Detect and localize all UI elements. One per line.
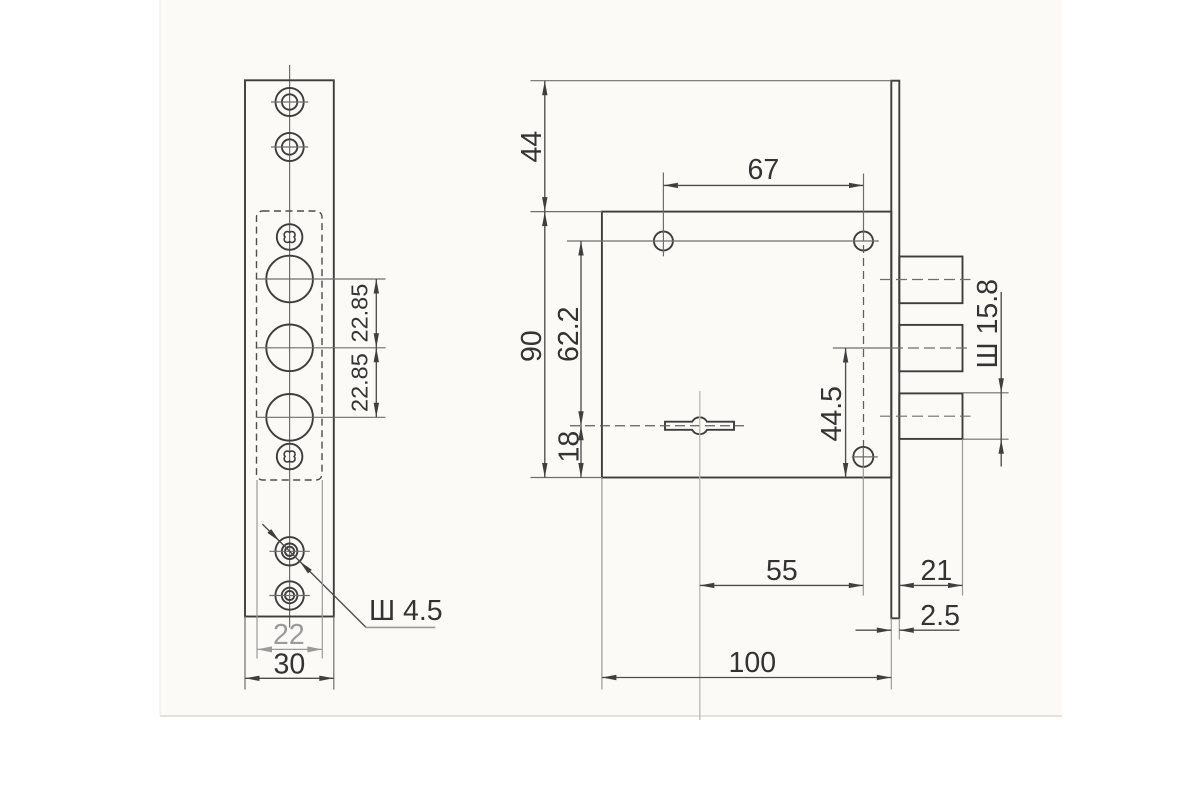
screw S2 clover — [284, 451, 295, 462]
dim 2.5 arrows — [877, 628, 892, 633]
svg-text:2.5: 2.5 — [920, 600, 960, 632]
top extension line (faceplate top) — [531, 80, 892, 82]
dim Ш15.8 extension lines — [963, 392, 1009, 394]
hole H1 outer — [276, 88, 304, 116]
svg-text:44: 44 — [516, 131, 548, 163]
dimension 22.85 upper: line — [375, 279, 377, 348]
svg-text:22.85: 22.85 — [347, 284, 373, 343]
screw hole P2 (bottom) — [275, 581, 303, 609]
svg-text:100: 100 — [729, 647, 777, 679]
faceplate side (tall strip) — [891, 81, 899, 619]
dim 21 line — [899, 584, 962, 586]
big circle B2 — [266, 325, 313, 372]
dim 44.5 extension line — [833, 347, 892, 349]
bolt edge extension (for 21) — [962, 439, 964, 595]
body bottom extension to left — [531, 477, 602, 479]
dim 44 arrows — [542, 81, 547, 96]
dim 67 arrows — [663, 183, 678, 188]
bolt 2 centerline — [892, 347, 971, 349]
keyhole — [665, 417, 734, 434]
svg-text:21: 21 — [921, 555, 953, 587]
dashed axis to bottom hole — [863, 245, 865, 448]
bolt 1 — [899, 257, 962, 304]
dim 22 extension lines (gray) — [256, 480, 258, 659]
keyhole dashed axis horizontal — [570, 425, 744, 427]
dim 22 arrows (gray) — [257, 646, 272, 652]
svg-text:Ш 15.8: Ш 15.8 — [972, 279, 1004, 369]
hole H1 crosshair — [271, 101, 308, 103]
dim 30 arrows — [245, 676, 260, 681]
dim 55 line — [700, 584, 864, 586]
bottom hole — [853, 447, 873, 467]
svg-text:44.5: 44.5 — [816, 386, 848, 441]
bolt 3 centerline — [880, 415, 971, 417]
hole H2 outer — [276, 133, 304, 161]
svg-text:22.85: 22.85 — [347, 353, 373, 412]
svg-text:55: 55 — [766, 555, 798, 587]
dim 90 line — [544, 212, 546, 478]
svg-text:18: 18 — [554, 431, 586, 463]
screw hole right — [854, 232, 873, 251]
svg-text:30: 30 — [274, 649, 306, 681]
dimension 22.85 lower: line — [375, 348, 377, 418]
right hole vertical axis — [863, 174, 865, 242]
dim 62.2 arrows — [578, 241, 583, 256]
screw S1 circle — [277, 224, 303, 250]
bottom hole crosshair — [852, 456, 878, 458]
bolt 2 — [899, 325, 962, 371]
dim Ш15.8 arrows — [999, 378, 1004, 393]
screw S1 clover — [284, 232, 295, 243]
dim 90 arrows — [542, 212, 547, 227]
big circle B1 — [266, 256, 313, 303]
dim 62.2 line — [580, 241, 582, 426]
screw hole P1 (bottom) — [275, 537, 303, 565]
left hole vertical axis — [662, 173, 664, 257]
keyhole vertical centerline — [699, 391, 701, 720]
body top extension to left — [531, 211, 602, 213]
screw S2 circle — [277, 444, 303, 470]
dim 100 arrows — [602, 675, 617, 680]
bolt 3 — [899, 393, 962, 439]
dim 21 arrows — [899, 583, 914, 588]
svg-text:62.2: 62.2 — [553, 307, 585, 362]
P1 crosshair — [269, 550, 309, 552]
hole H1 inner — [282, 94, 297, 109]
dim 2.5 leader lines — [856, 629, 892, 631]
dim 55 arrows — [700, 583, 715, 588]
dim 67 line — [663, 184, 863, 186]
body left edge extension down — [601, 478, 603, 690]
dim 100 line — [602, 677, 891, 679]
svg-text:22: 22 — [273, 619, 305, 651]
B2 center line — [257, 347, 386, 349]
P2 crosshair — [269, 595, 309, 597]
dim 22 line (gray) — [257, 648, 322, 650]
B1 center line — [257, 278, 386, 280]
dim 44 line — [544, 81, 546, 212]
bottom hole axis extension down — [862, 467, 864, 596]
leader arrows on hole P1 — [267, 529, 279, 541]
centerline (vertical axis of faceplate) — [289, 65, 291, 628]
dim 22.85 upper arrows — [374, 279, 379, 294]
B3 center line — [257, 416, 386, 418]
svg-text:Ш 4.5: Ш 4.5 — [369, 595, 443, 627]
faceplate plate outline — [245, 80, 334, 616]
screw hole left — [654, 232, 673, 251]
svg-text:67: 67 — [748, 154, 780, 186]
svg-text:90: 90 — [516, 330, 548, 362]
dim Ш15.8 line — [1000, 292, 1002, 467]
dim 30 line — [245, 677, 334, 679]
lock body outline — [602, 212, 891, 478]
faceplate bottom extensions — [890, 618, 892, 689]
dim 44.5 line — [845, 348, 847, 478]
hole H2 inner — [282, 139, 297, 154]
dim 22.85 lower arrows — [374, 348, 379, 363]
dim 18 line — [580, 426, 582, 478]
dashed cutout region — [257, 211, 323, 480]
hole H2 crosshair — [271, 146, 308, 148]
bolt 1 centerline — [880, 279, 971, 281]
leader line for Ш 4.5 — [262, 524, 366, 627]
big circle B3 — [266, 394, 313, 441]
dim 44.5 arrows — [843, 348, 848, 363]
dim 18 arrows — [578, 426, 583, 441]
hole axis line horizontal — [567, 240, 879, 242]
plate edge extension lines — [244, 617, 246, 690]
